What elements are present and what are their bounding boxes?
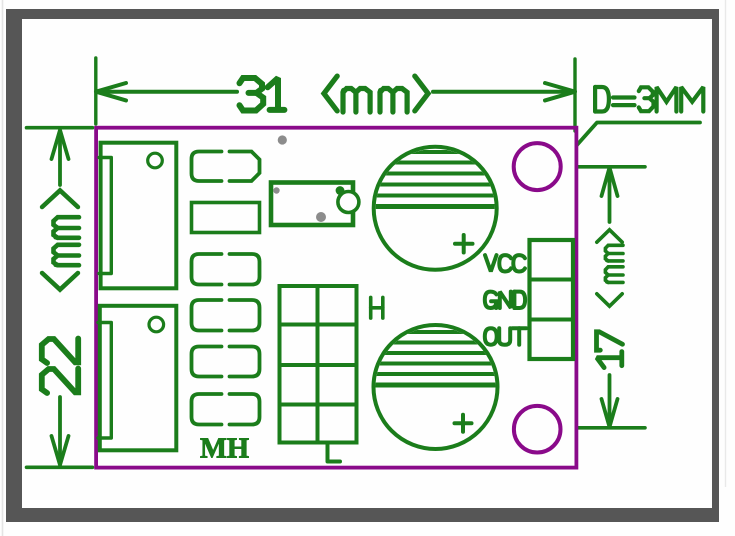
leader line D=3MM — [577, 123, 701, 146]
dimension line 31mm left segment — [98, 90, 237, 94]
capacitor C1 stripes — [370, 152, 500, 207]
svg-text:MH: MH — [200, 434, 249, 465]
pad P3 — [230, 254, 260, 285]
arrowhead down (17mm) — [602, 399, 618, 427]
diode D1 cathode notch — [338, 192, 359, 213]
pad P6 — [230, 394, 260, 425]
dot artifact 2 — [273, 187, 279, 193]
dot artifact 3 — [316, 212, 326, 222]
arrowhead left (31mm) — [96, 83, 126, 100]
mounting hole top-right D=3MM — [514, 143, 561, 190]
label "17 (mm)" rotated — [597, 230, 624, 368]
tick top (22mm) — [27, 126, 93, 130]
dimension line 17mm lower segment — [608, 375, 612, 425]
PCB board outline — [96, 128, 576, 468]
pad P5 — [230, 347, 260, 377]
tick top (17mm) — [578, 165, 645, 169]
capacitor C2 plus — [455, 421, 472, 425]
label "22 (mm)" rotated — [42, 190, 79, 393]
label "31 (mm)" — [240, 78, 263, 93]
label OUT — [485, 328, 497, 344]
arrowhead up (17mm) — [602, 168, 618, 197]
capacitor C2 stripes — [370, 332, 500, 385]
connector J2 pin-1 hole — [149, 317, 164, 332]
pad grid center divider — [316, 286, 320, 443]
extension line right (31mm) — [573, 59, 576, 131]
dot artifact 1 — [278, 135, 287, 144]
extension line left (31mm) — [94, 58, 97, 124]
pad grid outline — [280, 286, 357, 443]
label L — [328, 444, 341, 462]
label GND — [485, 292, 497, 308]
tick bottom (17mm) — [578, 426, 645, 430]
capacitor C1 body — [374, 147, 497, 270]
pad P1 — [230, 152, 260, 182]
pin header outline — [530, 240, 574, 359]
dimension line 22mm upper segment — [58, 131, 62, 185]
pad grid row dividers — [280, 323, 357, 327]
diode D1 footprint — [271, 183, 353, 226]
tick bottom (22mm) — [27, 465, 93, 469]
connector J2 outline — [100, 306, 177, 451]
pad P2 — [192, 203, 260, 233]
arrowhead up (22mm) — [52, 130, 69, 159]
connector J1 key notch — [99, 158, 111, 274]
connector J1 outline — [101, 143, 177, 289]
dimension line 17mm upper segment — [608, 170, 612, 222]
mounting hole bottom-right D=3MM — [514, 406, 561, 453]
label H — [369, 297, 373, 318]
capacitor C2 body — [374, 325, 498, 449]
capacitor C1 plus — [455, 242, 473, 246]
pad P4 — [230, 300, 260, 331]
label VCC — [485, 255, 497, 271]
diode D1 polarity dot — [336, 186, 345, 195]
connector J2 key notch — [98, 323, 111, 439]
arrowhead right (31mm) — [545, 83, 575, 100]
connector J1 pin-1 hole — [148, 153, 163, 168]
arrowhead down (22mm) — [52, 436, 69, 465]
label "D=3MM" — [593, 87, 597, 112]
dimension line 22mm lower segment — [58, 397, 62, 464]
pin header dividers — [530, 278, 574, 282]
dimension line 31mm right segment — [433, 90, 574, 94]
